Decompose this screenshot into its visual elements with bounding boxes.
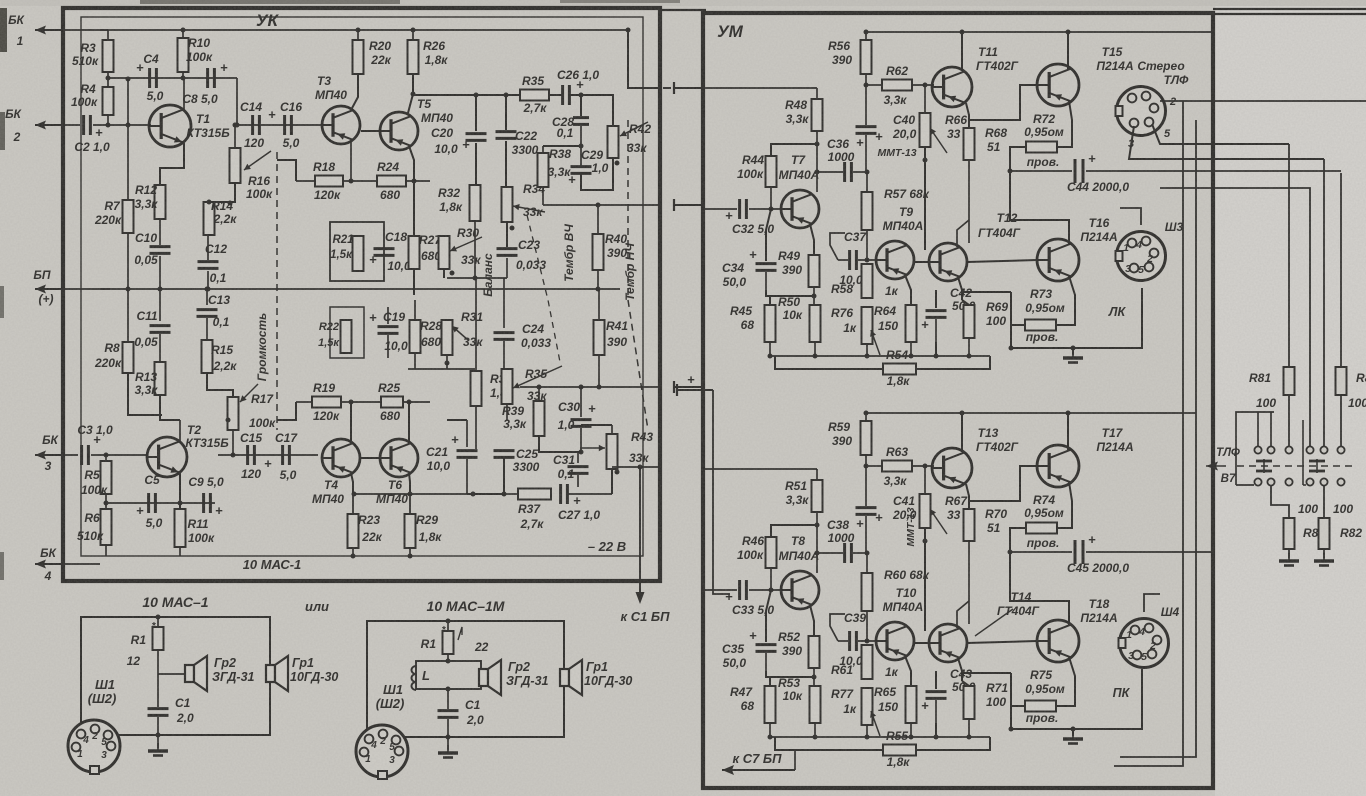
terminal BK1 <box>35 29 61 31</box>
resistor R37 <box>518 489 551 500</box>
potentiometer R36 <box>502 369 513 404</box>
capacitor С42 <box>935 290 937 308</box>
resistor R82 <box>1323 486 1325 518</box>
wire node row y78 <box>108 77 237 79</box>
capacitor C20 <box>475 95 477 131</box>
wire to switch col2 g2 <box>1323 159 1325 448</box>
potentiometer R42 <box>608 126 619 158</box>
capacitor C29 <box>571 165 592 168</box>
resistor R47 <box>769 677 771 686</box>
dashed gang line balance <box>527 215 560 362</box>
resistor R11 <box>175 509 186 547</box>
resistor R59 <box>865 413 867 421</box>
wire input rail (upper) <box>703 87 817 89</box>
terminal BK2 <box>35 124 61 126</box>
capacitor C16 <box>283 115 286 135</box>
capacitor C4 <box>148 68 151 88</box>
wire row y369 <box>408 368 475 370</box>
capacitor С36 <box>817 171 843 173</box>
resistor R24 <box>377 176 406 187</box>
speaker Gr2 <box>479 669 488 686</box>
transistor Т17 <box>1037 445 1079 487</box>
capacitor С44 <box>1010 170 1072 172</box>
wire T3 collector <box>351 74 358 110</box>
resistor R7 <box>127 79 129 200</box>
capacitor С41 <box>865 466 867 506</box>
capacitor С37 <box>838 259 848 261</box>
terminal BK4 <box>35 563 61 565</box>
wire Т9 emitter <box>905 275 911 305</box>
speaker Gr2 <box>185 665 194 682</box>
resistor R40 <box>597 205 599 234</box>
resistor R38 <box>543 145 581 147</box>
capacitor C22 <box>505 95 507 130</box>
resistor R53 <box>810 686 821 723</box>
capacitor C14 <box>251 115 254 135</box>
switch group1 bracket <box>1236 412 1274 485</box>
wire emitter rail <box>770 355 990 357</box>
transistor T3 <box>322 106 360 144</box>
wire output row y94 <box>413 94 520 96</box>
transistor Т10 <box>876 622 914 660</box>
resistor R28 <box>414 300 416 320</box>
capacitor C3 <box>80 445 83 465</box>
wire base Т18 <box>967 641 1037 643</box>
wire link 2 to UM <box>543 204 660 206</box>
wire row y503 <box>106 502 215 504</box>
resistor R72 <box>1057 101 1072 147</box>
resistor R4 <box>103 87 114 115</box>
wire loudness dashed <box>276 152 278 430</box>
transistor Т14 <box>929 624 967 662</box>
capacitor C30 <box>580 387 582 417</box>
scan edge artifacts <box>0 8 7 52</box>
resistor R39 <box>538 387 540 401</box>
potentiometer R17 <box>228 397 239 430</box>
potentiometer R66 <box>924 85 926 113</box>
resistor R32 <box>470 185 481 221</box>
transistor T5 <box>380 112 418 150</box>
wire emitter rail <box>770 736 990 738</box>
resistor R71 <box>962 681 969 686</box>
terminal BK3 <box>35 454 61 456</box>
wire long vertical B <box>1120 120 1196 757</box>
resistor R49 <box>809 255 820 287</box>
wire link 4 row y467 <box>612 466 660 468</box>
potentiometer R43 <box>607 434 618 469</box>
wire balance row <box>447 277 507 279</box>
resistor R74 <box>1057 482 1072 528</box>
capacitor C21 <box>466 420 468 447</box>
transistor Т15 <box>1037 64 1079 106</box>
capacitor C27 <box>559 484 562 504</box>
block frame UK (preamp) <box>63 8 660 581</box>
resistor R61 <box>862 645 873 679</box>
wire link bias lower <box>677 389 713 391</box>
transistor Т13 <box>932 448 972 488</box>
wire interstage y125 <box>237 124 322 126</box>
resistor R65 <box>906 686 917 723</box>
resistor R50 <box>810 305 821 342</box>
potentiometer R76 <box>862 307 873 344</box>
wire vertical feed x713 <box>713 390 730 594</box>
capacitor C26 <box>549 94 562 96</box>
connector Sh3 <box>1117 232 1166 281</box>
resistor R64 <box>906 305 917 342</box>
wire T2 emitter <box>179 473 181 509</box>
wire to C1 BP <box>639 467 641 600</box>
ground box <box>157 735 159 748</box>
resistor R25 <box>381 397 403 408</box>
wire base Т16 <box>967 260 1037 262</box>
wire top edge right <box>1213 8 1366 10</box>
resistor R60 <box>866 553 868 573</box>
resistor R41 <box>598 289 600 320</box>
resistor R21 <box>353 236 364 271</box>
capacitor С40 <box>865 85 867 125</box>
capacitor C2 <box>82 115 85 135</box>
feedback box R21 <box>330 222 384 281</box>
resistor R19 <box>312 397 341 408</box>
resistor R20 <box>357 30 359 40</box>
transistor Т18 <box>1037 620 1079 662</box>
potentiometer R77 <box>862 688 873 725</box>
transistor Т12 <box>929 243 967 281</box>
resistor R62 <box>882 80 912 91</box>
capacitor С39 <box>838 640 848 642</box>
capacitor C12 <box>207 235 209 260</box>
resistor R1 box <box>156 615 161 620</box>
wire UM supply rail top <box>866 31 1211 33</box>
transistor Т9 <box>876 241 914 279</box>
capacitor C11 <box>159 289 161 321</box>
wire output to speaker <box>962 672 1011 674</box>
wire row R47 <box>766 671 814 677</box>
resistor R80 <box>1271 486 1289 518</box>
wire k C7 BP <box>722 769 795 771</box>
dashed gang line tone <box>628 120 648 430</box>
resistor R18 <box>315 176 343 187</box>
capacitor С45 <box>1010 551 1072 553</box>
wire T4 collector <box>350 402 352 443</box>
capacitor C19 <box>387 307 389 324</box>
capacitor C15 <box>246 445 249 465</box>
wire T5 collector <box>408 94 413 113</box>
wire Т12 emitter <box>958 277 962 300</box>
capacitor C24 <box>503 278 505 328</box>
wire row R45 <box>766 290 814 296</box>
switch dashed bar <box>1237 465 1352 467</box>
wire bias link R44 <box>771 144 817 156</box>
capacitor C23 <box>497 247 518 250</box>
wire link top to UM <box>628 30 660 88</box>
wire T2 collector <box>179 420 181 441</box>
resistor R46 <box>766 537 777 568</box>
capacitor С38 <box>817 552 843 554</box>
wire TLF pin5 <box>1152 124 1289 144</box>
wire emitter row y494 <box>354 493 467 495</box>
wire top bridge between blocks <box>660 9 706 11</box>
wire T3 emitter <box>350 140 352 181</box>
wire Т13 collector <box>961 413 963 452</box>
transistor T4 <box>322 439 360 477</box>
wire Т11 collector <box>961 32 963 71</box>
transistor Т11 <box>932 67 972 107</box>
ground box <box>447 737 449 750</box>
resistor R54 <box>775 356 883 369</box>
transistor T1 <box>149 105 191 147</box>
wire supply rail top <box>100 29 628 31</box>
ground output <box>1072 348 1074 355</box>
resistor R83 <box>1340 173 1342 367</box>
wire to switch col1 g2 <box>1160 188 1310 448</box>
resistor R35 <box>520 90 549 101</box>
wire UM supply rail mid <box>866 412 1196 414</box>
feedback box R22 <box>330 307 364 358</box>
wire TLF pin2 <box>1160 100 1366 102</box>
wire link 3 row y387 <box>520 386 660 388</box>
resistor R68 <box>966 103 969 128</box>
resistor R10 <box>182 30 184 38</box>
inductor L <box>447 654 449 661</box>
wire base Т15 <box>969 85 1037 120</box>
resistor R3 <box>107 30 109 40</box>
capacitor C1 <box>148 707 169 710</box>
potentiometer R30 <box>439 236 450 269</box>
resistor R29 <box>409 494 411 514</box>
wire bias link R46 <box>771 525 817 537</box>
resistor R56 <box>865 32 867 40</box>
speaker Gr1 <box>560 669 569 686</box>
wire R1 to crossover <box>157 650 159 674</box>
capacitor C17 <box>281 445 284 465</box>
capacitor C28 <box>580 95 582 116</box>
resistor R26 <box>412 30 414 40</box>
wire BP rail <box>100 288 620 290</box>
wire Т14 emitter <box>958 658 962 681</box>
transistor Т8 <box>781 571 819 609</box>
wire T5 emitter <box>409 146 414 181</box>
switch B7 group1 <box>1254 446 1261 453</box>
wire input rail (lower) <box>703 468 817 470</box>
wire Т8 emitter <box>810 605 814 636</box>
speaker Gr1 <box>266 665 275 682</box>
wire output to speaker <box>962 291 1011 293</box>
resistor R6 <box>101 509 112 545</box>
switch B7 group2 <box>1306 446 1313 453</box>
resistor R63 <box>882 461 912 472</box>
wire T1 collector <box>183 78 185 110</box>
capacitor С43 <box>935 671 937 689</box>
wire Т12 base <box>914 261 929 263</box>
capacitor C8 <box>206 68 209 88</box>
resistor R33 <box>471 371 482 406</box>
resistor R55 <box>775 737 883 750</box>
capacitor C18 <box>374 247 395 250</box>
wire drop to interstage <box>236 78 238 125</box>
resistor R27 <box>413 181 415 236</box>
terminal BP(+) <box>35 288 61 290</box>
wire TLF pin3 <box>1129 126 1324 159</box>
potentiometer R31 <box>442 320 453 355</box>
capacitor С32 <box>703 208 737 210</box>
capacitor C25 <box>494 449 515 452</box>
capacitor C5 <box>147 493 150 513</box>
resistor R70 <box>966 484 969 509</box>
resistor R48 <box>816 88 818 99</box>
potentiometer R67 <box>924 466 926 494</box>
resistor R12 <box>155 185 166 219</box>
transistor T2 <box>147 437 187 477</box>
wire T6 collector <box>408 402 410 444</box>
resistor R44 <box>766 156 777 187</box>
resistor R22 <box>341 320 352 353</box>
resistor R15 <box>202 340 213 373</box>
resistor R69 <box>962 300 969 305</box>
ground output <box>1072 729 1074 736</box>
resistor R23 <box>352 494 354 514</box>
wire T4 emitter <box>351 473 353 494</box>
capacitor С33 <box>703 589 737 591</box>
wire bottom row <box>218 530 530 532</box>
capacitor C13 <box>206 289 208 305</box>
block frame UM (power amp) <box>703 13 1213 788</box>
wire T6 emitter <box>409 473 410 494</box>
resistor R14 <box>204 202 215 235</box>
connector TLF stereo <box>1117 87 1166 136</box>
wire long vertical A <box>1114 101 1183 766</box>
resistor R75 <box>1056 657 1075 706</box>
wire Т10 emitter <box>905 656 911 686</box>
resistor R51 <box>816 469 818 480</box>
wire input row y455 <box>218 454 318 456</box>
wire T1 emitter <box>160 143 184 185</box>
resistor R13 <box>155 362 166 395</box>
wire Т7 emitter <box>810 224 814 255</box>
wire base T5 <box>361 130 380 132</box>
resistor R73 <box>1056 276 1075 325</box>
capacitor C1 <box>438 709 459 712</box>
resistor R58 <box>862 264 873 298</box>
resistor R57 <box>866 172 868 192</box>
resistor R5 <box>105 455 107 461</box>
transistor T6 <box>380 439 418 477</box>
capacitor C9 <box>202 493 205 513</box>
wire Т14 base <box>914 642 929 644</box>
resistor R45 <box>769 296 771 305</box>
capacitor C10 <box>159 219 161 245</box>
resistor R1 box <box>446 619 451 624</box>
capacitor С35 <box>766 590 771 642</box>
wire base T6 <box>361 457 380 459</box>
transistor Т16 <box>1037 239 1079 281</box>
capacitor С34 <box>766 209 771 261</box>
switch group2 bracket <box>1302 420 1304 485</box>
capacitor C31 <box>577 452 579 463</box>
inner frame UK <box>81 17 643 556</box>
potentiometer R16 <box>234 125 236 148</box>
resistor R8 <box>127 289 129 342</box>
transistor Т7 <box>781 190 819 228</box>
resistor R81 <box>1288 144 1290 367</box>
connector Sh4 <box>1120 619 1169 668</box>
wire base Т17 <box>969 466 1037 501</box>
potentiometer R34 <box>502 187 513 222</box>
resistor R52 <box>809 636 820 668</box>
